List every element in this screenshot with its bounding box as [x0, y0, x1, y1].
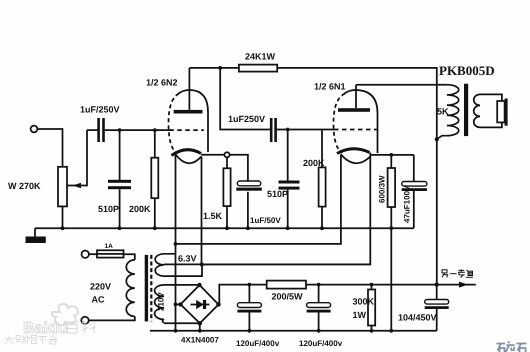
svg-text:Baidu: Baidu [23, 320, 67, 337]
svg-text:120uF/400v: 120uF/400v [236, 339, 280, 348]
svg-text:120uF/400v: 120uF/400v [299, 339, 343, 348]
wire to other channel [437, 284, 476, 286]
wire plate top [189, 67, 239, 69]
U2 plate [338, 108, 370, 112]
svg-text:210V: 210V [157, 292, 166, 311]
svg-text:104/450V: 104/450V [398, 313, 437, 323]
node plate/24K [218, 66, 222, 70]
resistor R4 1.5K [224, 152, 229, 157]
wire bridge B+ output [219, 285, 250, 305]
svg-text:1/2 6N1: 1/2 6N1 [314, 82, 346, 92]
resistor R3 200K (stage2) [321, 130, 323, 168]
resistor R1 200K [153, 128, 157, 132]
wire secondary to speaker [480, 94, 502, 101]
svg-text:1.5K: 1.5K [203, 211, 223, 221]
wiper wire [67, 130, 87, 185]
bridge inner diode [191, 304, 210, 306]
pot bottom lead [62, 206, 64, 228]
U2 cathode [337, 149, 370, 154]
heater rail A [164, 263, 370, 265]
wire U1 heater left (drops to bottom) [175, 154, 177, 330]
wire bridge bottom to rail [199, 323, 201, 331]
ground rail [35, 227, 414, 229]
wire primary to lower terminal [88, 316, 134, 320]
svg-text:PKB005D: PKB005D [439, 63, 495, 78]
svg-text:200K: 200K [129, 204, 151, 214]
svg-text:24K1W: 24K1W [245, 52, 276, 62]
svg-text:W 270K: W 270K [8, 181, 41, 191]
node pot-ground [61, 226, 65, 230]
ground [34, 228, 36, 237]
resistor R6 200/5W [249, 284, 266, 286]
wire fuse to primary [124, 254, 135, 260]
watermark baidu bottom-left [5, 304, 96, 344]
svg-text:200/5W: 200/5W [272, 292, 304, 302]
wire left vertex stub [176, 303, 181, 305]
capacitor C3 1uF250V coupling [270, 118, 273, 142]
wire U2 cathode tee to 600 ohm [370, 154, 414, 156]
svg-text:1uF/250V: 1uF/250V [80, 105, 120, 115]
resistor R5 600/3W [389, 153, 393, 157]
node B+ main [435, 282, 439, 286]
node B+ cap2 [317, 283, 321, 287]
capacitor C2 510P [118, 128, 122, 132]
U1 envelope bottom arc [176, 154, 202, 163]
T1 core [145, 255, 148, 322]
potentiometer W1 270K [58, 167, 67, 207]
T1 HV winding 210V [155, 285, 164, 323]
capacitor C9 104/450V [436, 285, 438, 300]
wire U2 heater left to heater rail [176, 154, 341, 244]
triode U1 1/2 6N2 envelope [178, 90, 209, 152]
T1 heater winding 6.3V [155, 254, 175, 276]
U2 grid [334, 129, 378, 131]
svg-text:6.3V: 6.3V [178, 254, 197, 264]
svg-text:510P: 510P [98, 204, 119, 214]
capacitor C8 120uF/400v [318, 285, 320, 303]
svg-text:5K: 5K [437, 107, 449, 117]
capacitor C6 47uF100V [413, 155, 415, 182]
output transformer T2 primary 5K [437, 85, 459, 140]
svg-text:600/3W: 600/3W [378, 175, 387, 203]
input jack J1 [31, 126, 38, 133]
U2 envelope bottom arc [341, 154, 370, 163]
wire 210V bottom to bridge [164, 322, 200, 324]
resistor R2 24K1W [239, 65, 277, 72]
U1 cathode [172, 150, 202, 156]
T2 core [464, 84, 468, 136]
T2 secondary [474, 94, 480, 127]
svg-text:4X1N4007: 4X1N4007 [181, 336, 219, 345]
speaker LS [497, 101, 504, 122]
svg-text:1A: 1A [105, 243, 114, 250]
svg-text:47uF100V: 47uF100V [403, 185, 412, 223]
wire U2 cathode lead [202, 153, 371, 265]
capacitor C5 1uF/50V [230, 155, 248, 182]
svg-text:1uF250V: 1uF250V [228, 114, 265, 124]
resistor R7 300K 1W [370, 283, 374, 287]
svg-text:1uF/50V: 1uF/50V [250, 216, 281, 225]
U1 plate [174, 110, 203, 114]
capacitor C1 1uF/250V [87, 129, 98, 131]
node B+ cap1 [248, 283, 252, 287]
svg-text:200K: 200K [303, 158, 325, 168]
wire U2 plate to transformer [356, 84, 447, 86]
wire 210V top to bridge [164, 284, 199, 286]
wiper arrowhead [73, 183, 82, 189]
svg-text:AC: AC [92, 295, 105, 305]
input terminal AC low [81, 317, 88, 324]
svg-text:220V: 220V [90, 282, 111, 292]
wire U1 cathode to 1.5K [201, 154, 225, 156]
power transformer T1: fuse F1 1A [82, 251, 89, 258]
wire 6.3V bottom lead [164, 264, 202, 276]
capacitor C7 120uF/400v [248, 285, 250, 303]
wire input to pot [37, 129, 62, 167]
triode U2 1/2 6N1 envelope [344, 90, 378, 153]
T1 primary 220V [126, 260, 135, 316]
capacitor C4 510P (stage2) [286, 128, 290, 132]
label other channel (另一声道 drawn strokes) [442, 269, 473, 277]
wire B+ top rail [277, 68, 437, 285]
svg-text:1/2 6N2: 1/2 6N2 [146, 78, 178, 88]
svg-text:300K: 300K [353, 297, 375, 307]
U1 grid [169, 129, 204, 131]
svg-text:510P: 510P [267, 189, 288, 199]
watermark bottom-right (矿石 drawn strokes) [497, 342, 527, 352]
wire ground riser [390, 228, 392, 331]
svg-text:1W: 1W [353, 310, 367, 320]
bottom rail B- [150, 330, 437, 332]
bridge rectifier D1-D4 [181, 285, 219, 323]
wire coupling branch [220, 68, 270, 130]
wire U1 heater right [201, 157, 203, 265]
